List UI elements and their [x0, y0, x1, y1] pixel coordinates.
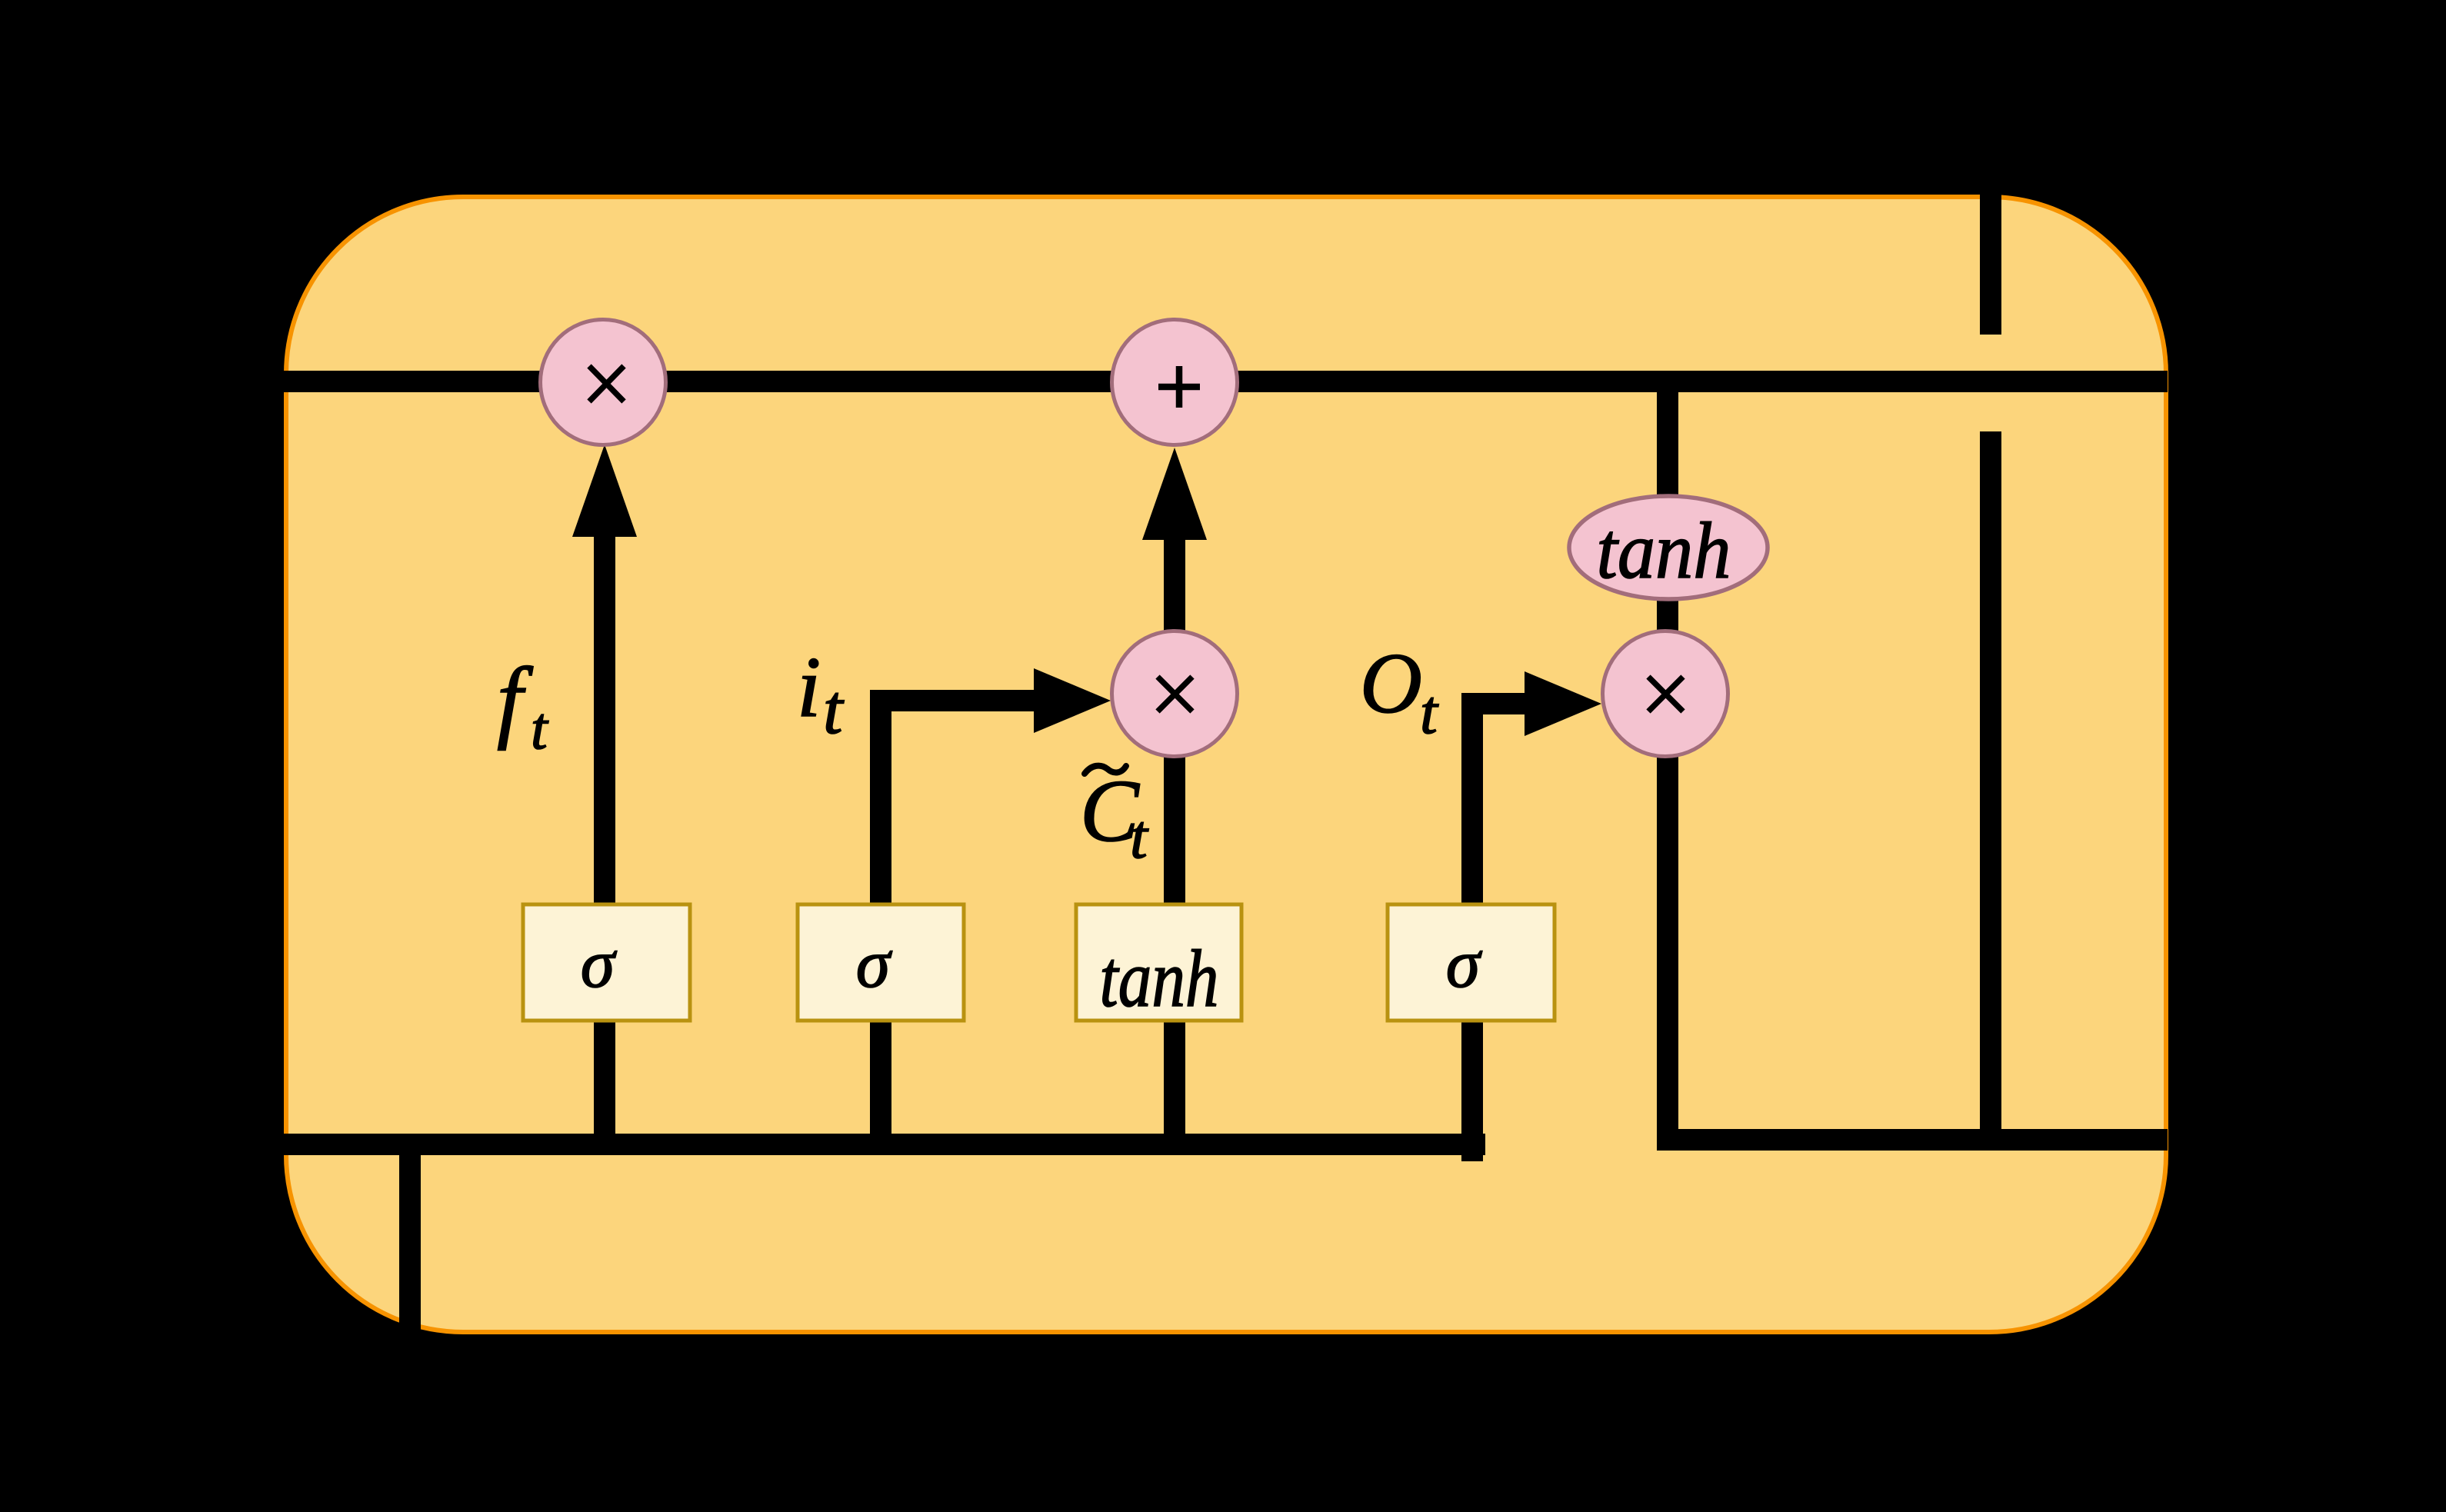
svg-text:tanh: tanh — [1597, 505, 1731, 595]
svg-text:t: t — [823, 670, 845, 748]
svg-text:i: i — [797, 640, 821, 735]
svg-text:σ: σ — [856, 926, 893, 1002]
svg-text:σ: σ — [581, 926, 618, 1002]
svg-text:tanh: tanh — [1100, 934, 1219, 1024]
svg-text:t: t — [1130, 801, 1149, 871]
svg-text:O: O — [1360, 636, 1422, 731]
svg-text:t: t — [1420, 677, 1439, 747]
svg-text:σ: σ — [1446, 926, 1483, 1002]
svg-text:t: t — [531, 694, 549, 761]
